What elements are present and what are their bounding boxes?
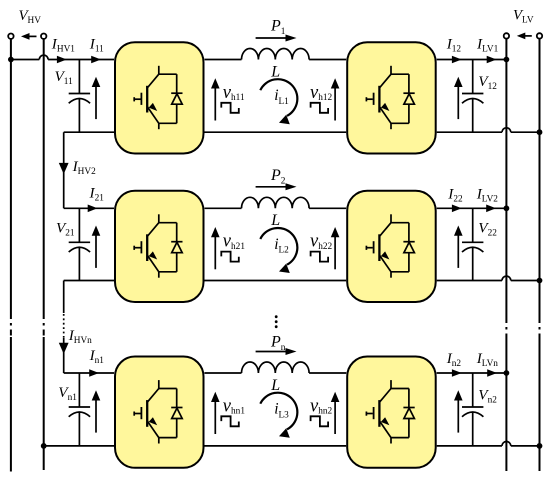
- svg-text:L: L: [270, 212, 280, 229]
- svg-text:L: L: [270, 377, 280, 394]
- svg-text:L: L: [270, 63, 280, 80]
